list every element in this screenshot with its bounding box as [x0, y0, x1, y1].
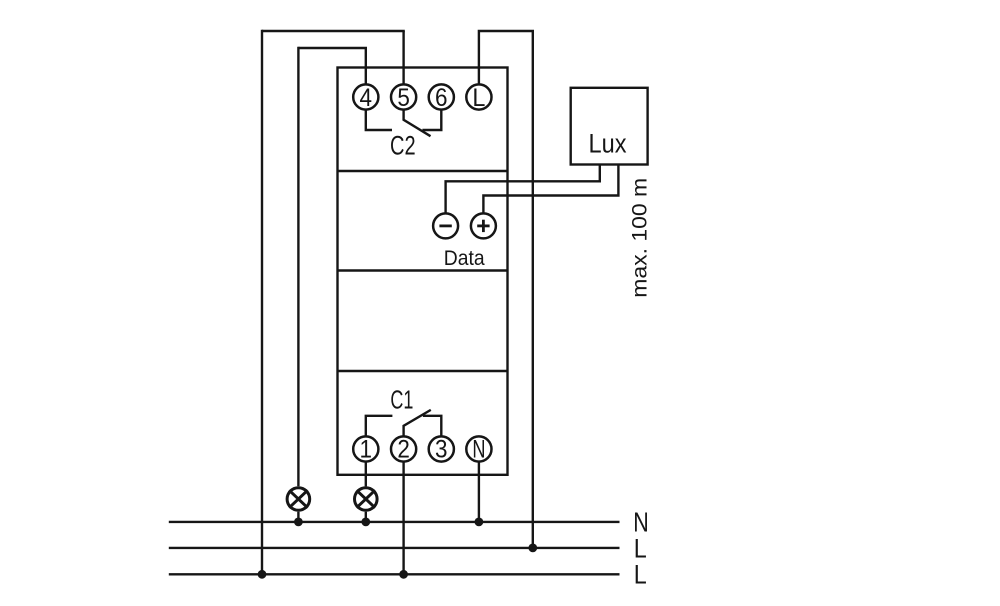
svg-text:5: 5	[397, 84, 410, 112]
svg-text:max. 100 m: max. 100 m	[628, 178, 651, 298]
svg-text:Data: Data	[444, 247, 485, 270]
svg-text:N: N	[472, 436, 485, 464]
svg-text:Lux: Lux	[589, 128, 627, 158]
svg-text:L: L	[472, 84, 485, 112]
svg-text:L: L	[634, 560, 647, 590]
svg-text:C1: C1	[390, 385, 413, 415]
svg-text:3: 3	[435, 436, 448, 464]
svg-text:6: 6	[435, 84, 448, 112]
svg-text:C2: C2	[390, 131, 416, 161]
svg-text:2: 2	[397, 436, 410, 464]
svg-text:4: 4	[360, 84, 373, 112]
svg-text:1: 1	[360, 436, 373, 464]
